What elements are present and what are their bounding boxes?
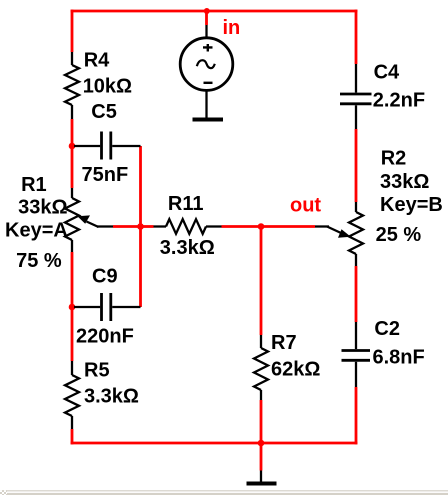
wire right rail above C4 [355,10,358,64]
capacitor C4 [340,64,372,129]
svg-text:75 %: 75 % [16,250,62,272]
svg-text:3.3kΩ: 3.3kΩ [160,237,215,259]
svg-text:R4: R4 [84,49,110,71]
capacitor C2 [342,322,371,387]
wire source drop [205,11,208,25]
wire R1 wiper red segment [113,225,141,228]
wire C5 to C9 vertical link [139,146,142,307]
R2 wiper arrow [315,227,351,238]
svg-text:R7: R7 [271,332,297,354]
svg-text:out: out [290,194,321,216]
ground bottom [247,471,277,484]
resistor R11 [154,219,222,234]
wire right rail below C2 [355,387,358,444]
svg-text:3.3kΩ: 3.3kΩ [84,385,139,407]
wire left rail R1 to R5 [71,252,74,361]
svg-text:R1: R1 [21,174,47,196]
svg-text:C5: C5 [91,101,117,123]
junction node at source [204,8,210,14]
wire out node horizontal [222,225,316,228]
potentiometer R2 [349,202,363,266]
capacitor C9 [74,293,141,321]
potentiometer R1 [65,188,79,252]
svg-text:10kΩ: 10kΩ [83,76,132,98]
svg-text:Key=B: Key=B [380,194,443,216]
wire left rail R4 to R1 [71,119,74,188]
wire R7 to bottom rail [260,400,263,443]
svg-text:33kΩ: 33kΩ [18,197,67,219]
wire R11 left lead red [141,225,154,228]
resistor R4 [65,52,79,119]
wire right rail R2 to C2 [355,266,358,322]
junction node R11 left [137,223,144,230]
svg-text:R5: R5 [84,360,110,382]
wire left rail below R5 [71,429,74,444]
svg-text:33kΩ: 33kΩ [380,171,429,193]
svg-text:2.2nF: 2.2nF [373,90,425,112]
junction node out [258,223,265,230]
capacitor C5 [74,132,141,160]
R1 wiper arrow [77,215,113,227]
svg-text:C9: C9 [92,266,118,288]
svg-text:in: in [223,17,241,39]
svg-text:R11: R11 [168,193,204,215]
wire bottom rail [71,442,358,445]
resistor R7 [254,335,268,400]
scrollbar strip [0,490,448,495]
svg-text:6.8nF: 6.8nF [373,346,425,368]
svg-text:25 %: 25 % [376,224,422,246]
wire ground stub red [260,443,263,471]
junction node C5 left [69,143,76,150]
svg-text:62kΩ: 62kΩ [271,359,320,381]
svg-text:C4: C4 [374,61,400,83]
ground at source [193,118,224,122]
svg-text:Key=A: Key=A [5,220,68,242]
junction node bottom ground [258,440,265,447]
resistor R5 [65,361,79,429]
wire left rail above R4 [71,10,74,52]
svg-text:75nF: 75nF [82,164,129,186]
wire right rail C4 to R2 [355,129,358,202]
svg-text:C2: C2 [374,318,400,340]
AC source V1 [180,25,233,118]
junction node C9 left [69,304,76,311]
svg-text:220nF: 220nF [76,326,134,348]
wire top rail [71,10,358,13]
wire out node vertical to R7 [260,227,263,336]
svg-text:R2: R2 [381,147,407,169]
